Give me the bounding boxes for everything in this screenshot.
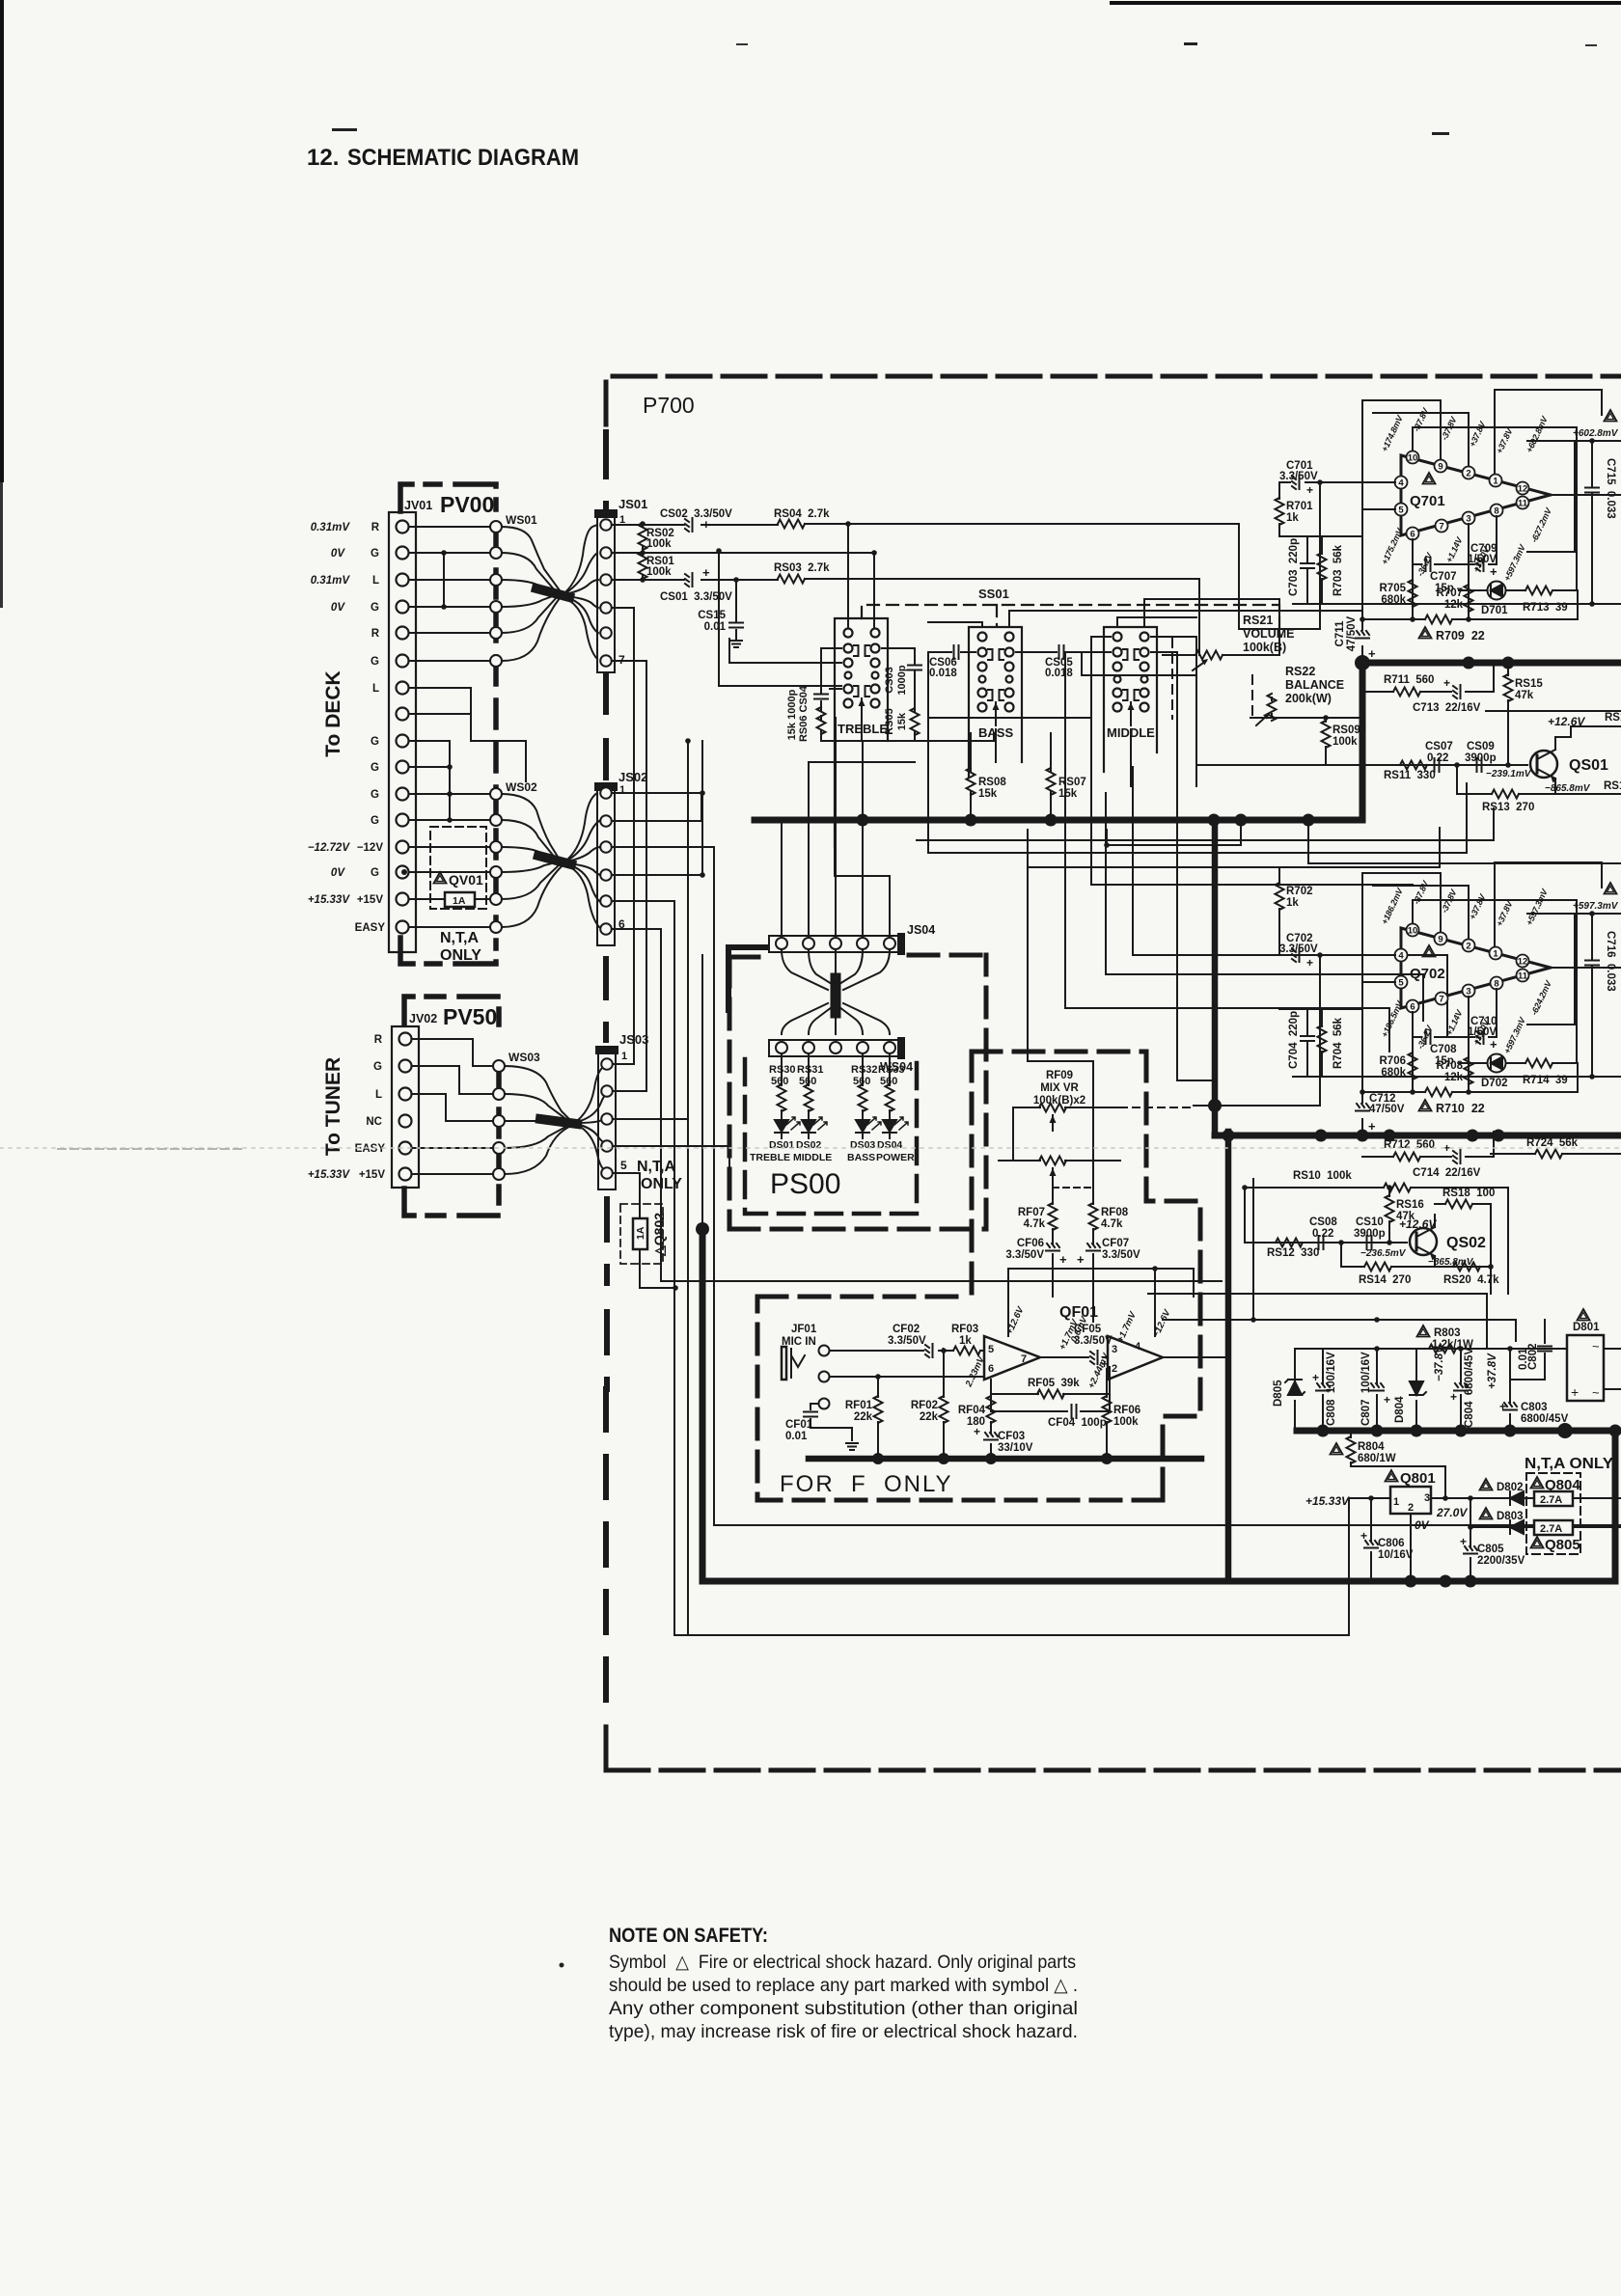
svg-text:MIX VR: MIX VR bbox=[1040, 1082, 1079, 1094]
svg-text:RS05: RS05 bbox=[884, 708, 895, 735]
svg-text:+15.33V: +15.33V bbox=[308, 1169, 350, 1181]
svg-text:+37.8V: +37.8V bbox=[1495, 899, 1515, 928]
svg-text:5: 5 bbox=[1398, 978, 1404, 989]
svg-text:1k: 1k bbox=[959, 1335, 972, 1347]
svg-text:RF03: RF03 bbox=[951, 1324, 978, 1335]
diode D802 bbox=[1492, 1491, 1621, 1505]
svg-text:G: G bbox=[371, 867, 379, 879]
svg-text:L: L bbox=[375, 1089, 382, 1101]
svg-text:2.7A: 2.7A bbox=[1540, 1494, 1562, 1506]
svg-text:7: 7 bbox=[1439, 522, 1443, 533]
capacitor CS02 3.3/50V bbox=[685, 518, 693, 532]
svg-text:1k: 1k bbox=[1286, 897, 1299, 909]
power bus (thick) bbox=[1215, 1133, 1621, 1139]
fuse QV01 dashed box bbox=[430, 827, 486, 909]
svg-text:10: 10 bbox=[1408, 926, 1418, 937]
bottom bus (thick) bbox=[1411, 1431, 1615, 1581]
svg-text:N,T,A: N,T,A bbox=[637, 1159, 675, 1175]
capacitor C711 bbox=[1356, 631, 1369, 639]
wire pin3 column / resistor R707 12k bbox=[1468, 524, 1470, 619]
svg-text:+: + bbox=[1490, 1037, 1497, 1052]
svg-text:−236.5mV: −236.5mV bbox=[1360, 1248, 1407, 1259]
svg-text:47k: 47k bbox=[1515, 690, 1534, 701]
wire feedback loop bbox=[1527, 441, 1575, 552]
svg-text:6: 6 bbox=[1410, 1002, 1415, 1013]
svg-text:CS15: CS15 bbox=[698, 610, 726, 621]
svg-text:7: 7 bbox=[1439, 995, 1443, 1005]
svg-text:QS02: QS02 bbox=[1446, 1235, 1486, 1251]
svg-text:RF07: RF07 bbox=[1018, 1207, 1045, 1218]
jack JF01 MIC IN bbox=[782, 1324, 817, 1348]
fuse block Q804/Q805 dashed box bbox=[1526, 1473, 1580, 1554]
svg-text:RS21: RS21 bbox=[1243, 614, 1273, 627]
svg-text:EASY: EASY bbox=[355, 922, 386, 934]
capacitor C703 / resistor R703 bbox=[1279, 536, 1362, 604]
switch TREBLE (SS01a) bbox=[835, 618, 888, 847]
svg-text:−12.72V: −12.72V bbox=[308, 842, 350, 854]
feedback resistor RF05 39k bbox=[991, 1367, 1110, 1394]
wire +rail bbox=[1362, 914, 1621, 1077]
svg-text:+: + bbox=[1059, 1252, 1067, 1267]
wire JS02-1 up to rail bbox=[612, 792, 702, 794]
svg-text:WS02: WS02 bbox=[506, 780, 537, 794]
svg-text:~: ~ bbox=[1592, 1385, 1600, 1400]
svg-text:8: 8 bbox=[1494, 506, 1498, 517]
svg-text:33/10V: 33/10V bbox=[998, 1442, 1033, 1454]
svg-text:6: 6 bbox=[1410, 530, 1415, 540]
svg-text:WS01: WS01 bbox=[506, 513, 537, 527]
capacitor C708 15p bbox=[1413, 1030, 1497, 1044]
svg-text:100k: 100k bbox=[646, 566, 672, 578]
svg-text:C713 22/16V: C713 22/16V bbox=[1413, 702, 1481, 714]
wire JS02-3 down bbox=[612, 847, 714, 1525]
warning mark top right bbox=[1605, 883, 1617, 894]
fuse Q802 dashed box bbox=[620, 1204, 663, 1264]
svg-text:+186.5mV: +186.5mV bbox=[1380, 998, 1406, 1039]
svg-text:R708: R708 bbox=[1437, 1060, 1464, 1072]
svg-text:R704 56k: R704 56k bbox=[1333, 1017, 1344, 1069]
pin 11 of Q701 bbox=[1517, 497, 1529, 509]
svg-text:CS07: CS07 bbox=[1425, 741, 1453, 752]
diode D701 bbox=[1459, 582, 1578, 600]
fuse Q804 bbox=[1531, 1477, 1544, 1489]
svg-text:0.22: 0.22 bbox=[1312, 1228, 1333, 1240]
svg-text:4: 4 bbox=[1398, 951, 1404, 962]
svg-text:L: L bbox=[372, 575, 379, 587]
capacitor C701 bbox=[1279, 476, 1395, 489]
capacitor CS04 1000p / resistor RS06 15k branch bbox=[729, 639, 841, 741]
svg-text:+: + bbox=[1499, 1400, 1506, 1413]
svg-text:9: 9 bbox=[1438, 462, 1442, 473]
svg-text:+: + bbox=[1360, 1529, 1367, 1543]
svg-text:~: ~ bbox=[1592, 1339, 1600, 1353]
fuse Q802 body 1A bbox=[633, 1218, 647, 1249]
wire JS02-6 down bbox=[612, 929, 1222, 1281]
svg-text:1000p: 1000p bbox=[896, 665, 908, 695]
pin 12 of Q701 bbox=[1517, 482, 1529, 495]
capacitor C806 10/16V bbox=[1364, 1498, 1378, 1581]
svg-text:CF01: CF01 bbox=[785, 1419, 813, 1431]
svg-text:+: + bbox=[702, 565, 710, 580]
feeds into JS04 from above bbox=[782, 718, 915, 938]
capacitor CF04 100p bbox=[991, 1394, 1110, 1411]
svg-text:0V: 0V bbox=[331, 867, 345, 879]
svg-text:+174.8mV: +174.8mV bbox=[1380, 413, 1406, 453]
svg-text:D701: D701 bbox=[1481, 605, 1508, 616]
svg-text:560: 560 bbox=[771, 1076, 788, 1087]
svg-text:R706: R706 bbox=[1380, 1055, 1407, 1067]
svg-text:RS1: RS1 bbox=[1604, 780, 1621, 792]
svg-text:R803: R803 bbox=[1434, 1327, 1461, 1339]
svg-text:RS33: RS33 bbox=[878, 1064, 905, 1076]
capacitor C804 6800/45V bbox=[1454, 1349, 1468, 1431]
svg-text:R709 22: R709 22 bbox=[1436, 629, 1485, 642]
svg-text:R707: R707 bbox=[1437, 588, 1464, 599]
svg-text:5: 5 bbox=[1398, 506, 1404, 516]
svg-text:560: 560 bbox=[799, 1076, 816, 1087]
svg-text:+: + bbox=[1306, 956, 1313, 970]
svg-text:RS10 100k: RS10 100k bbox=[1293, 1170, 1352, 1182]
resistor RF07 4.7k bbox=[1046, 1185, 1059, 1297]
pin 5 of Q701 bbox=[1395, 504, 1408, 516]
svg-text:4: 4 bbox=[1398, 478, 1404, 489]
capacitor CF02 3.3/50V bbox=[925, 1344, 933, 1357]
wires Q801 bbox=[1349, 1498, 1492, 1635]
svg-text:CS08: CS08 bbox=[1309, 1216, 1337, 1228]
svg-text:Q702: Q702 bbox=[1410, 966, 1445, 982]
connector JV01 bbox=[389, 512, 416, 952]
resistor RS10 100k bbox=[1245, 1184, 1508, 1295]
svg-text:1: 1 bbox=[619, 784, 625, 796]
svg-text:3900p: 3900p bbox=[1465, 752, 1497, 764]
svg-text:1k: 1k bbox=[1286, 512, 1299, 524]
resistor RS01 100k bbox=[642, 553, 644, 580]
svg-text:TREBLE: TREBLE bbox=[838, 722, 888, 736]
svg-text:POWER: POWER bbox=[876, 1152, 915, 1163]
switch BASS (SS01b) bbox=[969, 627, 1022, 777]
diode D804 (zener) bbox=[1410, 1349, 1426, 1431]
svg-text:+175.2mV: +175.2mV bbox=[1380, 526, 1406, 566]
svg-text:EASY: EASY bbox=[355, 1143, 386, 1155]
svg-text:R701: R701 bbox=[1286, 501, 1313, 512]
wire JS02-2 bbox=[612, 793, 701, 821]
svg-text:RF02: RF02 bbox=[911, 1400, 938, 1411]
svg-text:RF06: RF06 bbox=[1113, 1405, 1140, 1416]
svg-text:1: 1 bbox=[1393, 1496, 1399, 1508]
svg-text:3.3/50V: 3.3/50V bbox=[888, 1335, 926, 1347]
svg-text:C806: C806 bbox=[1378, 1538, 1405, 1549]
svg-text:−865.8mV: −865.8mV bbox=[1545, 783, 1591, 794]
capacitor CF01 0.01 bbox=[810, 1404, 852, 1440]
svg-text:RS22: RS22 bbox=[1285, 665, 1315, 678]
svg-text:0.01: 0.01 bbox=[1518, 1348, 1529, 1370]
svg-text:CF03: CF03 bbox=[998, 1431, 1025, 1442]
svg-text:RS16: RS16 bbox=[1396, 1199, 1424, 1211]
svg-text:G: G bbox=[371, 548, 379, 560]
svg-text:C715 0.033: C715 0.033 bbox=[1605, 458, 1616, 519]
svg-text:CF07: CF07 bbox=[1102, 1238, 1129, 1249]
resistor R803 1.2k/1W bbox=[1429, 1345, 1456, 1353]
thin line to power y1695 bbox=[674, 1634, 1349, 1636]
svg-text:1: 1 bbox=[1493, 949, 1498, 960]
svg-text:1: 1 bbox=[621, 1051, 627, 1062]
svg-text:PV00: PV00 bbox=[440, 492, 494, 517]
pin 6 of Q702 bbox=[1407, 1000, 1419, 1013]
resistor R702 bbox=[1276, 867, 1284, 955]
svg-text:RS03 2.7k: RS03 2.7k bbox=[774, 562, 830, 574]
svg-text:G: G bbox=[371, 736, 379, 748]
svg-text:RF01: RF01 bbox=[845, 1400, 873, 1411]
svg-text:SCHEMATIC DIAGRAM: SCHEMATIC DIAGRAM bbox=[347, 145, 579, 171]
svg-text:15k: 15k bbox=[896, 712, 908, 730]
rail under middle bbox=[928, 717, 1091, 719]
wire JS01 dashed continuation below bbox=[603, 675, 609, 781]
op-amp Q702 bbox=[1401, 928, 1551, 1008]
svg-text:L: L bbox=[372, 683, 379, 695]
wire pin8 column bbox=[1496, 516, 1497, 564]
wire JS03-3 bbox=[613, 1118, 688, 1120]
svg-text:+597.3mV: +597.3mV bbox=[1502, 542, 1528, 583]
capacitor CS01 3.3/50V bbox=[685, 573, 693, 587]
wire mic ring bbox=[830, 1376, 984, 1378]
wire pin5 lead bbox=[1362, 508, 1395, 510]
op-amp QF01a bbox=[984, 1336, 1040, 1380]
svg-text:15k 1000p: 15k 1000p bbox=[786, 689, 798, 740]
svg-text:FOR F ONLY: FOR F ONLY bbox=[780, 1471, 953, 1497]
svg-text:8: 8 bbox=[1494, 979, 1498, 990]
pin 3 of Q702 bbox=[1463, 985, 1475, 998]
wire pin5 lead bbox=[1362, 981, 1395, 983]
svg-text:+602.8mV: +602.8mV bbox=[1525, 414, 1551, 454]
wires corridor right of bus bbox=[917, 718, 1621, 1080]
svg-text:RF04: RF04 bbox=[958, 1405, 986, 1416]
svg-text:C711: C711 bbox=[1334, 620, 1346, 646]
connector PV50 dashed box bbox=[404, 997, 499, 1216]
resistor R804 680/1W bbox=[1347, 1431, 1446, 1498]
svg-text:+: + bbox=[1368, 646, 1376, 661]
svg-text:RF08: RF08 bbox=[1101, 1207, 1129, 1218]
wire bass/middle centers bbox=[995, 729, 997, 762]
svg-text:C704 220p: C704 220p bbox=[1288, 1011, 1300, 1069]
regulator Q801 bbox=[1390, 1487, 1431, 1514]
svg-text:5: 5 bbox=[620, 1159, 627, 1172]
capacitor C704 / resistor R704 bbox=[1279, 1009, 1362, 1077]
capacitor C707 15p bbox=[1413, 558, 1497, 571]
wire QS01 collector bbox=[1555, 726, 1621, 737]
svg-text:27.0V: 27.0V bbox=[1436, 1506, 1468, 1519]
svg-text:4.7k: 4.7k bbox=[1101, 1218, 1123, 1230]
QF01 supply rail bbox=[1008, 1269, 1194, 1336]
svg-text:+37.8V: +37.8V bbox=[1468, 420, 1488, 449]
resistor R705 680k bbox=[1409, 580, 1417, 607]
svg-text:JF01: JF01 bbox=[791, 1324, 817, 1335]
rail under treble bbox=[821, 733, 994, 741]
capacitor C808 100/16V bbox=[1316, 1349, 1330, 1431]
svg-text:Q701: Q701 bbox=[1410, 493, 1445, 509]
capacitor C802 0.01 bbox=[1510, 1320, 1552, 1380]
svg-text:2: 2 bbox=[1466, 942, 1470, 952]
svg-text:MIDDLE: MIDDLE bbox=[793, 1152, 832, 1163]
wire pin4 lead bbox=[1319, 482, 1321, 629]
svg-text:C703 220p: C703 220p bbox=[1288, 538, 1300, 596]
svg-text:CS01 3.3/50V: CS01 3.3/50V bbox=[660, 591, 732, 603]
svg-text:R: R bbox=[371, 522, 380, 533]
svg-text:+: + bbox=[1490, 564, 1497, 579]
resistor RS02 100k bbox=[642, 524, 644, 553]
resistor R711 560 / capacitor C713 bbox=[1362, 663, 1494, 698]
svg-text:D802: D802 bbox=[1497, 1482, 1524, 1493]
cable bundle JS04 to WS04 bbox=[782, 950, 890, 1034]
svg-text:+: + bbox=[1571, 1384, 1579, 1400]
svg-text:5: 5 bbox=[988, 1344, 994, 1355]
svg-text:CS03: CS03 bbox=[884, 667, 895, 694]
svg-text:RS13 270: RS13 270 bbox=[1482, 802, 1534, 813]
pin 5 of Q702 bbox=[1395, 976, 1408, 989]
pin 9 of Q702 bbox=[1435, 933, 1447, 945]
P700 dashed border bbox=[606, 376, 1621, 1772]
svg-text:4: 4 bbox=[1135, 1341, 1141, 1353]
svg-text:0.01: 0.01 bbox=[785, 1431, 808, 1442]
capacitor CS03 1000p / resistor RS05 15k column bbox=[882, 648, 921, 741]
svg-text:−12V: −12V bbox=[357, 842, 384, 854]
svg-text:type), may increase risk of fi: type), may increase risk of fire or elec… bbox=[609, 2021, 1078, 2042]
thin line y1581 bbox=[714, 1524, 1621, 1526]
svg-text:C714 22/16V: C714 22/16V bbox=[1413, 1167, 1481, 1179]
svg-text:Q805: Q805 bbox=[1545, 1537, 1580, 1553]
svg-text:2.7A: 2.7A bbox=[1540, 1523, 1562, 1535]
svg-text:JV02: JV02 bbox=[409, 1012, 437, 1025]
node voltage labels bbox=[1380, 406, 1554, 583]
scan fold line artifact bbox=[0, 1147, 1621, 1149]
switch SS01 dashed outline bbox=[862, 605, 1279, 627]
resistor RS04 2.7k bbox=[778, 520, 805, 529]
wire JS02-4 bbox=[612, 874, 702, 876]
LED DS02 bbox=[802, 1117, 827, 1138]
svg-text:RS1: RS1 bbox=[1605, 712, 1621, 724]
wire JS03-4 bbox=[613, 1146, 729, 1187]
node WS03 bbox=[493, 1060, 505, 1180]
svg-text:G: G bbox=[371, 762, 379, 774]
capacitor C807 100/16V bbox=[1370, 1349, 1384, 1431]
node WS01 bbox=[490, 521, 502, 667]
svg-text:G: G bbox=[371, 602, 379, 614]
svg-text:N,T,A: N,T,A bbox=[440, 930, 479, 946]
connector WS04 bbox=[769, 1040, 900, 1056]
svg-text:560: 560 bbox=[853, 1076, 870, 1087]
capacitor C716 0.033 bbox=[1585, 914, 1599, 1077]
wires mix area verticals bbox=[1028, 767, 1447, 1150]
svg-text:G: G bbox=[371, 656, 379, 668]
capacitor CF03 33/10V bbox=[990, 1428, 992, 1459]
svg-text:2: 2 bbox=[1112, 1363, 1117, 1375]
svg-text:+1.7mV: +1.7mV bbox=[1115, 1310, 1139, 1345]
svg-text:47k: 47k bbox=[1396, 1211, 1415, 1222]
svg-text:CS02 3.3/50V: CS02 3.3/50V bbox=[660, 508, 732, 520]
svg-text:2: 2 bbox=[1408, 1502, 1414, 1514]
svg-text:R711 560: R711 560 bbox=[1384, 674, 1434, 686]
wires JV01 to WS01 bbox=[409, 527, 490, 661]
svg-text:R710 22: R710 22 bbox=[1436, 1102, 1485, 1115]
LED DS03 bbox=[856, 1117, 881, 1138]
svg-text:3: 3 bbox=[1424, 1492, 1430, 1504]
pin 9 of Q701 bbox=[1435, 460, 1447, 473]
svg-text:C707: C707 bbox=[1430, 571, 1457, 583]
svg-text:0.018: 0.018 bbox=[1045, 668, 1073, 679]
potentiometer RS22 BALANCE bbox=[1285, 665, 1344, 705]
svg-text:+15V: +15V bbox=[357, 894, 384, 906]
svg-text:0.31mV: 0.31mV bbox=[311, 522, 351, 533]
pin 2 of Q702 bbox=[1463, 940, 1475, 952]
svg-text:12: 12 bbox=[1518, 957, 1528, 968]
title bbox=[307, 145, 579, 171]
svg-text:RS31: RS31 bbox=[797, 1064, 824, 1076]
svg-text:1A: 1A bbox=[453, 895, 466, 907]
pin 1 of Q701 bbox=[1490, 475, 1502, 487]
svg-text:1: 1 bbox=[1493, 477, 1498, 487]
connector JS04 bbox=[769, 936, 900, 952]
svg-text:3: 3 bbox=[1112, 1344, 1117, 1355]
svg-text:Q801: Q801 bbox=[1400, 1470, 1436, 1487]
svg-text:+597.3mV: +597.3mV bbox=[1525, 887, 1551, 927]
svg-text:DS01: DS01 bbox=[769, 1139, 794, 1151]
svg-text:6800/45V: 6800/45V bbox=[1521, 1413, 1569, 1425]
svg-text:+37.8V: +37.8V bbox=[1487, 1353, 1498, 1389]
svg-text:−239.1mV: −239.1mV bbox=[1486, 769, 1532, 779]
svg-text:JV01: JV01 bbox=[404, 499, 432, 512]
connector JS02 bbox=[597, 785, 615, 945]
svg-text:should be used to replace any: should be used to replace any part marke… bbox=[609, 1975, 1078, 1996]
resistor RS07 15k bbox=[1047, 733, 1056, 819]
svg-text:11: 11 bbox=[1518, 499, 1528, 509]
svg-text:1A: 1A bbox=[635, 1226, 646, 1240]
wire feedback loop bbox=[1527, 914, 1575, 1025]
svg-text:+: + bbox=[1368, 1119, 1376, 1134]
svg-text:+: + bbox=[1384, 1393, 1390, 1407]
wire QS01 emitter / resistor RS13 270 bbox=[1457, 765, 1621, 799]
svg-text:4.7k: 4.7k bbox=[1024, 1218, 1046, 1230]
svg-text:100k: 100k bbox=[646, 538, 672, 550]
svg-text:0.31mV: 0.31mV bbox=[311, 575, 351, 587]
resistor RF08 4.7k bbox=[1053, 1150, 1100, 1322]
svg-text:3.3/50V: 3.3/50V bbox=[1102, 1249, 1140, 1261]
wire pin8 column bbox=[1496, 989, 1497, 1037]
resistor R709 22 bbox=[1362, 615, 1578, 624]
svg-text:3: 3 bbox=[1466, 987, 1470, 998]
svg-text:22k: 22k bbox=[920, 1411, 939, 1423]
svg-text:CF02: CF02 bbox=[893, 1324, 920, 1335]
resistor RS08 15k bbox=[967, 733, 975, 819]
svg-text:G: G bbox=[371, 789, 379, 801]
svg-text:RS20 4.7k: RS20 4.7k bbox=[1443, 1274, 1499, 1286]
svg-text:0.018: 0.018 bbox=[929, 668, 957, 679]
svg-text:+186.2mV: +186.2mV bbox=[1380, 886, 1406, 926]
svg-text:RS18 100: RS18 100 bbox=[1442, 1188, 1495, 1199]
capacitor C712 bbox=[1356, 1104, 1369, 1111]
node voltage labels bbox=[1380, 879, 1554, 1055]
pin 2 of Q701 bbox=[1463, 467, 1475, 479]
vertical bundle from JS connectors bbox=[612, 608, 1621, 1635]
svg-text:R: R bbox=[374, 1034, 383, 1046]
svg-text:PV50: PV50 bbox=[443, 1004, 497, 1029]
svg-text:0V: 0V bbox=[1415, 1518, 1430, 1532]
svg-text:R702: R702 bbox=[1286, 886, 1313, 897]
diode D803 bbox=[1470, 1520, 1621, 1534]
resistor RS33 560 bbox=[889, 1053, 891, 1117]
svg-text:To DECK: To DECK bbox=[322, 670, 344, 756]
wires middle feeds bbox=[928, 599, 1362, 830]
svg-text:RS14 270: RS14 270 bbox=[1359, 1274, 1411, 1286]
svg-text:0.22: 0.22 bbox=[1427, 752, 1448, 764]
